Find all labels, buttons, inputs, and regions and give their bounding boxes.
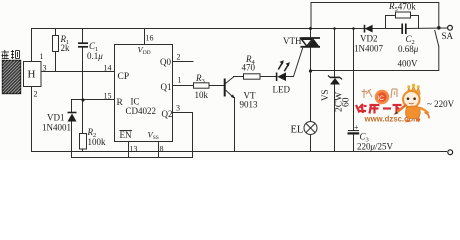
wire triac top [310,29,312,39]
wire triac bottom to node [310,48,312,122]
wire Q1 to R3 [173,85,194,87]
svg-text:Q1: Q1 [161,82,172,92]
svg-text:13: 13 [130,145,138,154]
wire H pin 2 down to bottom rail [31,87,33,152]
svg-text:VS: VS [320,89,330,101]
svg-text:400V: 400V [398,59,419,69]
svg-text:Q2: Q2 [162,109,173,119]
LED arrows [278,63,282,70]
capacitor C1 [78,43,88,47]
resistor R4 [244,74,261,79]
wire VD1 anode to rail [71,122,73,152]
svg-text:LED: LED [273,85,291,95]
svg-text:SA: SA [442,31,454,41]
svg-text:VD1: VD1 [47,113,65,123]
switch SA blade [435,31,439,47]
wire collector to R4 [234,76,244,78]
wire Q2 pin 3 down to tie line [173,113,193,158]
wire IC pin 16 [144,29,146,45]
svg-text:~ 220V: ~ 220V [427,99,455,109]
wire C1 bottom lead crossing CP line [82,48,84,100]
svg-text:IC: IC [131,97,140,107]
svg-text:9013: 9013 [240,100,259,110]
wire zener column upper [334,29,336,78]
svg-text:VSS: VSS [148,130,159,142]
wire C3 column lower [353,135,355,152]
svg-text:3: 3 [176,104,180,113]
svg-text:100k: 100k [88,137,107,147]
wire SA return line [311,47,439,71]
svg-text:15: 15 [104,92,112,101]
wire IC pin 8 [158,142,160,158]
zener diode VS 2CW60 [328,75,342,84]
resistor R5 [396,12,411,18]
wire EL bottom to rail [310,135,312,152]
wire Q0 stub pin 2 [173,61,194,63]
LED [277,60,290,81]
svg-text:1N4001: 1N4001 [42,123,71,133]
svg-text:+: + [354,123,359,132]
svg-text:1N4007: 1N4007 [354,44,383,54]
label cigang magnet chinese [2,50,20,59]
transistor Q1 VT 9013 [225,77,235,99]
svg-text:1: 1 [40,52,44,61]
svg-text:VD2: VD2 [360,34,378,44]
wire R5C2 right bracket [411,16,419,29]
svg-text:CP: CP [118,72,130,82]
node junction dots [81,26,440,102]
wire zener column lower [334,85,336,152]
wire VD1 branch [71,100,73,112]
svg-text:0.68μ: 0.68μ [398,44,419,54]
diode VD2 [365,25,373,33]
svg-text:VTH: VTH [283,36,302,46]
wire EN/VSS tie line [72,152,193,158]
terminal circle top SA [448,25,453,30]
resistor R3 [194,83,210,88]
svg-text:470: 470 [242,63,256,73]
capacitor C2 [402,24,406,35]
svg-text:R: R [117,98,124,108]
resistor R1 [53,36,59,52]
wire LED to gate [286,76,294,78]
wire R pin 15 line [72,99,115,101]
wire R1 top lead [55,29,57,36]
wire top bypass to SA [311,3,439,29]
wire left vertical to H pin 1 [31,29,33,62]
wire C2 left plate lead [386,28,403,30]
svg-text:IC: IC [378,95,385,102]
terminal circle bottom [448,150,453,155]
wire IC pin 13 [128,142,130,158]
svg-text:220μ/25V: 220μ/25V [357,142,394,152]
svg-text:Q0: Q0 [160,57,171,67]
svg-text:R5470k: R5470k [388,1,416,13]
triac VTH [301,38,321,47]
svg-text:2k: 2k [61,43,71,53]
wire C3 column upper [353,29,355,131]
watermark mascot [394,84,430,123]
svg-text:16: 16 [146,34,154,43]
wire R4 to LED [260,76,277,78]
IC U1 CD4022 box [115,45,173,142]
svg-text:3: 3 [43,64,47,73]
wire R5C2 left bracket [386,16,396,29]
svg-text:2: 2 [34,90,38,99]
wire C1 top lead [82,29,84,43]
lamp EL [304,122,317,135]
wire VT emitter down [234,98,236,152]
diode VD1 [68,113,77,122]
magnet block [3,61,21,94]
svg-text:EN: EN [120,130,132,140]
svg-text:8: 8 [160,145,164,154]
wire gate diagonal to triac [294,49,303,77]
wire R2 top lead [82,100,84,134]
hall sensor H box [24,62,42,87]
svg-text:1: 1 [178,76,182,85]
watermark red text weiku [356,104,402,114]
svg-text:VDD: VDD [138,45,151,57]
watermark orange ball [375,90,389,104]
wire R2 bottom lead [82,149,84,152]
wire VD2 line right to R5C2 block [373,28,386,30]
svg-text:2: 2 [177,53,181,62]
capacitor C3 electrolytic [348,131,360,134]
svg-text:H: H [28,69,36,81]
resistor R2 [80,134,87,150]
svg-text:0.1μ: 0.1μ [87,51,103,61]
svg-text:10k: 10k [195,90,209,100]
wire R1 bottom lead [55,52,57,72]
wire R3 to VT base [209,85,225,87]
watermark gray chars [362,89,398,98]
wire top supply rail [32,28,386,30]
svg-text:CD4022: CD4022 [126,106,157,116]
svg-text:EL: EL [291,125,304,136]
wire H pin 3 to CP pin 14 [41,71,115,73]
wire bottom common rail [32,151,447,153]
wire C2 right to SA terminal [406,27,447,30]
svg-text:14: 14 [104,64,112,73]
svg-text:60: 60 [342,97,352,107]
watermark logo [356,84,429,124]
